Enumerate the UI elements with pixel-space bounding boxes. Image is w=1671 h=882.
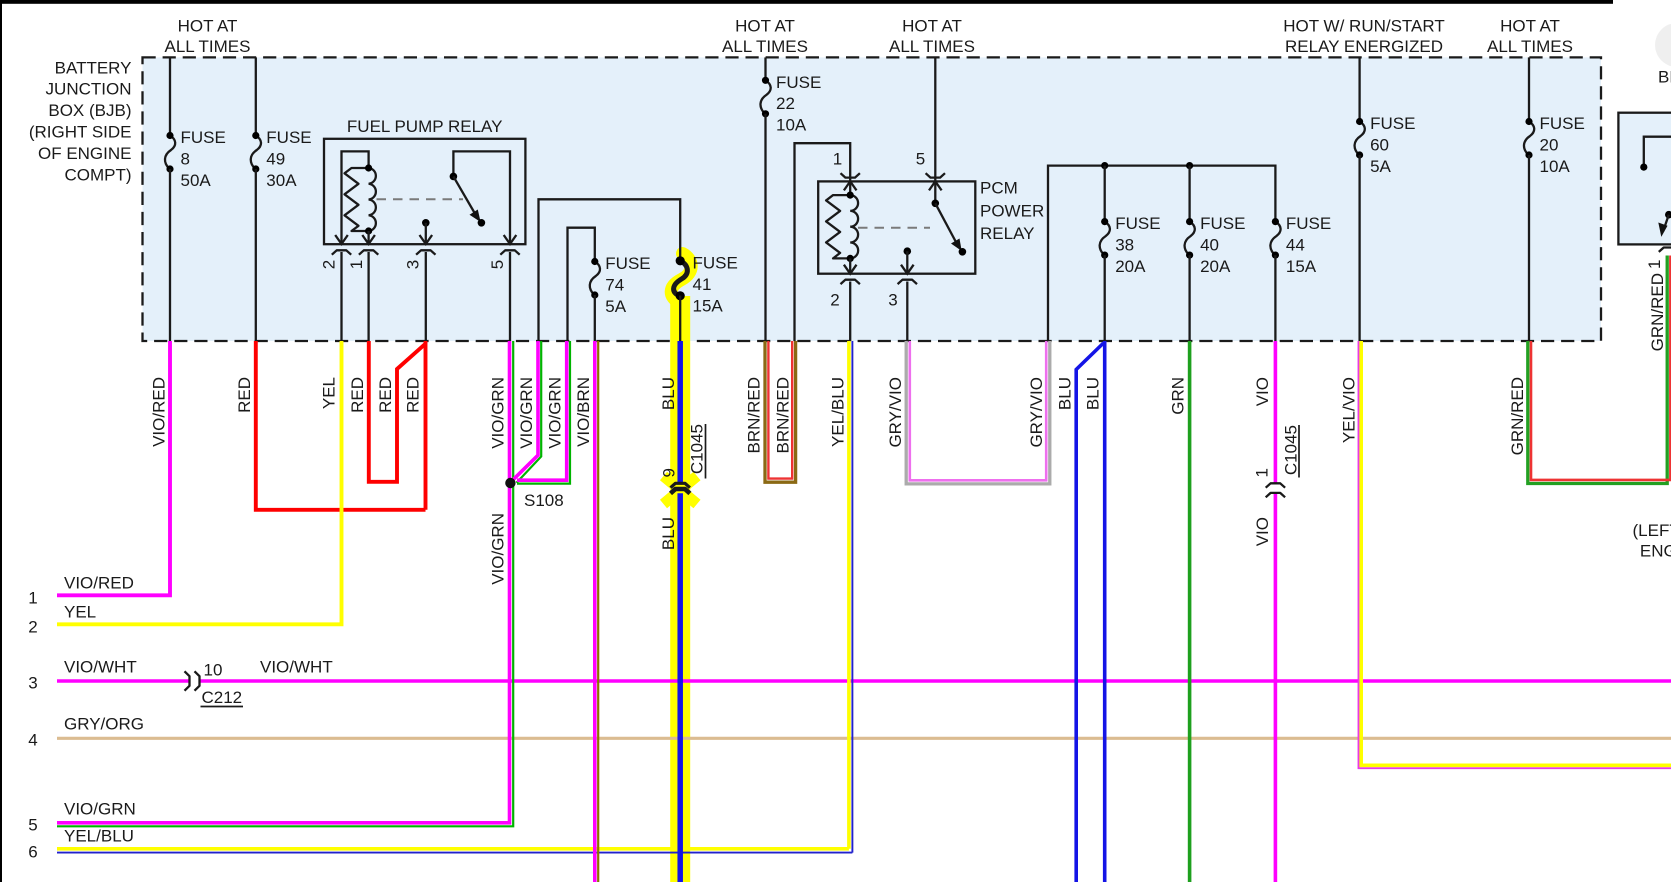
svg-text:BLU: BLU (659, 517, 678, 550)
label VIO/GRN (pin 5) (489, 377, 508, 449)
relay pin 2 arrow (844, 265, 857, 274)
frame left edge line (0, 0, 2, 882)
relay K-PCM-POWER pin 3 contact (904, 247, 912, 273)
svg-text:(LEFT: (LEFT (1633, 521, 1671, 540)
wire fuse 41 output (679, 296, 681, 342)
node junction fuse 40 feed (1186, 162, 1193, 222)
wire fuse 49 output (255, 169, 257, 341)
inline connector C212 pin 10 (185, 661, 244, 708)
partial relay switch contact (1658, 211, 1671, 237)
relay pin 5 arrow (504, 235, 517, 244)
svg-text:20A: 20A (1115, 257, 1146, 276)
wire fuse 8 feed (169, 57, 171, 135)
svg-text:FUSE: FUSE (181, 128, 226, 147)
svg-text:49: 49 (266, 149, 285, 168)
svg-text:BATTERY: BATTERY (55, 58, 132, 77)
svg-text:GRY/VIO: GRY/VIO (1027, 377, 1046, 448)
label VIO (below C1045) (1253, 517, 1272, 546)
battery junction box (BJB) dashed boundary (143, 57, 1602, 341)
row 3 wire label VIO/WHT (64, 658, 137, 677)
wire VIO (fuse 44 output) (1274, 341, 1278, 882)
svg-text:FUSE: FUSE (776, 73, 821, 92)
svg-text:GRN/RED: GRN/RED (1508, 377, 1527, 455)
label BATTERY JUNCTION BOX (29, 58, 132, 184)
svg-text:3: 3 (888, 291, 897, 310)
pin 3 connector (404, 250, 436, 269)
svg-text:HOT AT: HOT AT (735, 17, 795, 36)
wire PCM relay pin 5 feed (934, 57, 936, 181)
relay pin 2 arrow (335, 235, 348, 244)
fuse F44 15A (1270, 214, 1331, 276)
power source label HOT AT ALL TIMES (fuse 22) (722, 17, 808, 57)
svg-text:VIO/BRN: VIO/BRN (574, 377, 593, 447)
node S108 splice (505, 478, 564, 510)
svg-text:YEL/VIO: YEL/VIO (1340, 377, 1359, 443)
svg-text:15A: 15A (693, 296, 724, 315)
svg-text:RED: RED (376, 377, 395, 413)
wire fuse 41 feed from S108 riser (539, 199, 681, 341)
label GRY/VIO (right) (1027, 377, 1046, 448)
svg-text:50A: 50A (181, 171, 212, 190)
label BLU (above C1045) (659, 377, 678, 410)
power source label HOT AT ALL TIMES (fuse 20) (1487, 17, 1573, 57)
svg-text:44: 44 (1286, 236, 1305, 255)
svg-text:ENGIN: ENGIN (1640, 542, 1671, 561)
svg-text:10A: 10A (1540, 157, 1571, 176)
fuse F22 10A (760, 73, 821, 135)
svg-text:20A: 20A (1200, 257, 1231, 276)
wire relay coil feed (pin 2 to coil) (342, 151, 369, 244)
row 3 wire VIO/WHT (57, 679, 1671, 683)
label RED (loop) (376, 377, 395, 413)
wire fuse 22 feed (764, 57, 766, 80)
relay pin 3 arrow (901, 265, 914, 274)
label GRN/RED (fuse 20) (1508, 377, 1527, 455)
label GRN (1169, 377, 1188, 415)
row 3 wire label VIO/WHT (after C212) (260, 658, 333, 677)
inline connector C1045 pin 9 (660, 424, 707, 493)
svg-text:10A: 10A (776, 116, 807, 135)
label BLU (jogged) (1056, 377, 1075, 410)
partial relay pin 1 connector (1645, 248, 1671, 270)
pin 5 label (916, 150, 925, 169)
svg-text:(RIGHT SIDE: (RIGHT SIDE (29, 123, 132, 142)
svg-text:GRN/RED: GRN/RED (1648, 273, 1667, 351)
label GRY/VIO (left) (886, 377, 905, 448)
svg-text:FUSE: FUSE (1540, 114, 1585, 133)
svg-text:1: 1 (1645, 260, 1664, 269)
row 4 number (28, 731, 37, 750)
svg-text:5A: 5A (605, 297, 626, 316)
pin 1 connector (347, 250, 378, 269)
relay K-FUEL-PUMP coil (345, 164, 376, 234)
label VIO/RED (149, 377, 168, 447)
pin 2 connector (320, 250, 352, 269)
svg-text:5: 5 (916, 150, 925, 169)
svg-text:FUSE: FUSE (266, 128, 311, 147)
svg-text:1: 1 (28, 589, 37, 608)
wire PCM pin 2 to BJB edge (849, 282, 851, 342)
svg-text:41: 41 (693, 275, 712, 294)
relay pin 5 arrow (up) (929, 181, 942, 203)
row 5 wire label VIO/GRN (64, 800, 136, 819)
fuse F38 20A (1100, 214, 1161, 276)
label VIO (above C1045) (1253, 377, 1272, 406)
svg-text:PCM: PCM (980, 179, 1018, 198)
wire fuse 60 feed (1358, 57, 1360, 121)
row 4 wire GRY/ORG (57, 737, 1671, 740)
svg-text:FUSE: FUSE (605, 254, 650, 273)
fuse F8 50A (165, 128, 226, 190)
svg-text:FUEL PUMP RELAY: FUEL PUMP RELAY (347, 117, 503, 136)
svg-text:40: 40 (1200, 236, 1219, 255)
svg-text:RED: RED (404, 377, 423, 413)
label BLU (below C1045) (659, 517, 678, 550)
wire relay pin 3 to BJB edge (425, 252, 427, 341)
label BLU (straight) (1083, 377, 1102, 410)
svg-text:5: 5 (488, 260, 507, 269)
relay K-FUEL-PUMP box (324, 139, 525, 244)
relay K-FUEL-PUMP pin 3 contact (422, 219, 430, 244)
wire fuse 20 output (1528, 155, 1530, 341)
node junction fuse 38 feed (1101, 162, 1108, 222)
wire VIO/BRN (fuse 74 output) (595, 341, 598, 882)
svg-text:GRY/ORG: GRY/ORG (64, 715, 144, 734)
partial relay box (cut at right edge) (1618, 113, 1671, 245)
inline connector C1045 pin 1 (1253, 425, 1301, 497)
relay K-PCM-POWER switch (932, 200, 967, 256)
power source label HOT W/ RUN/START RELAY ENERGIZED (fuse 60) (1282, 17, 1446, 57)
label YEL (320, 377, 339, 409)
svg-text:3: 3 (28, 674, 37, 693)
svg-text:2: 2 (28, 618, 37, 637)
svg-text:VIO/GRN: VIO/GRN (517, 377, 536, 449)
wire VIO/RED (fuse 8 to row 1) (57, 341, 170, 595)
svg-text:FUSE: FUSE (1115, 214, 1160, 233)
svg-text:9: 9 (660, 468, 679, 477)
wire PCM pin 3 to BJB edge (906, 282, 908, 342)
svg-text:HOT W/ RUN/START: HOT W/ RUN/START (1283, 17, 1445, 36)
row 6 number (28, 843, 37, 862)
wire fuse 60 output (1358, 155, 1360, 341)
partial label LEFT ENGINE (right edge) (1633, 521, 1671, 561)
wire fuse bank feeder (1048, 166, 1275, 341)
svg-text:HOT AT: HOT AT (902, 17, 962, 36)
wire PCM relay pin 1 feed (795, 143, 851, 341)
label VIO/BRN (574, 377, 593, 447)
label BRN/RED (right) (773, 377, 792, 454)
svg-text:VIO/GRN: VIO/GRN (489, 513, 508, 585)
pin 1 connector (top) (841, 173, 860, 177)
wire BLU (fuse 38 output, jog) (1076, 343, 1103, 882)
svg-text:5: 5 (28, 816, 37, 835)
relay K-PCM-POWER mechanical link (858, 227, 930, 229)
svg-text:BLU: BLU (659, 377, 678, 410)
svg-text:BLU: BLU (1083, 377, 1102, 410)
relay pin 1 arrow (up) (844, 181, 857, 195)
pin 2 connector (830, 280, 860, 310)
svg-text:YEL/BLU: YEL/BLU (828, 377, 847, 447)
svg-text:VIO/GRN: VIO/GRN (64, 800, 136, 819)
svg-text:RED: RED (235, 377, 254, 413)
relay pin 1 arrow (362, 235, 375, 244)
label RED (pin 1) (348, 377, 367, 413)
svg-text:VIO/RED: VIO/RED (64, 574, 134, 593)
wire GRN/RED (fuse 20 loop to partial relay) (1528, 256, 1671, 484)
svg-text:8: 8 (181, 149, 190, 168)
wire YEL/VIO (fuse 60 output) (1359, 341, 1671, 768)
svg-text:C1045: C1045 (1282, 425, 1301, 475)
relay K-FUEL-PUMP switch (450, 173, 486, 227)
svg-text:YEL: YEL (64, 603, 96, 622)
svg-text:COMPT): COMPT) (64, 165, 131, 184)
wire fuse 38 output (1104, 255, 1106, 341)
watermark circle (top right) (1655, 23, 1671, 67)
svg-text:20: 20 (1540, 135, 1559, 154)
wire fuse 74 output (594, 295, 596, 341)
svg-text:C1045: C1045 (688, 424, 707, 474)
svg-text:22: 22 (776, 94, 795, 113)
label VIO/GRN (riser C) (545, 377, 564, 449)
wire YEL/BLU (PCM pin 2 to row 6) (849, 341, 853, 853)
partial component label B (top right) (1658, 68, 1671, 87)
fuse F60 5A (1355, 114, 1416, 176)
svg-text:HOT AT: HOT AT (1500, 17, 1560, 36)
svg-text:FUSE: FUSE (1200, 214, 1245, 233)
svg-text:60: 60 (1370, 135, 1389, 154)
wire fuse 8 output (169, 169, 171, 341)
row 5 number (28, 816, 37, 835)
wire RED (relay pin 1 loop) (369, 341, 426, 482)
svg-text:GRY/VIO: GRY/VIO (886, 377, 905, 448)
row 4 wire label GRY/ORG (64, 715, 144, 734)
wire RED (relay pin 3) (424, 341, 428, 510)
wire relay pin 5 to BJB edge (509, 252, 511, 341)
wire relay switch feed (pin 5 to pivot) (453, 151, 510, 244)
svg-text:ALL TIMES: ALL TIMES (165, 37, 251, 56)
svg-text:2: 2 (320, 260, 339, 269)
wire fuse 74 feed from S108 riser (568, 228, 595, 341)
wire relay pin 1 to BJB edge (367, 252, 369, 341)
wire GRN (fuse 40 output) (1188, 341, 1192, 882)
wire fuse 22 output (764, 114, 766, 341)
svg-text:3: 3 (404, 260, 423, 269)
svg-text:FUSE: FUSE (1370, 114, 1415, 133)
svg-text:ALL TIMES: ALL TIMES (889, 37, 975, 56)
svg-text:YEL/BLU: YEL/BLU (64, 827, 134, 846)
svg-text:1: 1 (347, 260, 366, 269)
fuse F20 10A (1524, 114, 1585, 176)
wire VIO/GRN (S108 riser to fuse 41) (512, 341, 541, 483)
fuse F40 20A (1185, 214, 1246, 276)
svg-text:38: 38 (1115, 236, 1134, 255)
svg-text:BL: BL (1658, 68, 1671, 87)
row 2 number (28, 618, 37, 637)
wire VIO/GRN (S108 riser to fuse 74) (517, 341, 570, 484)
svg-text:4: 4 (28, 731, 37, 750)
svg-text:VIO/GRN: VIO/GRN (489, 377, 508, 449)
wire GRY/VIO (PCM pin 3 loop to fuse bank) (906, 341, 1050, 484)
wire YEL (relay pin 2 to row 2) (57, 341, 342, 624)
relay K-FUEL-PUMP mechanical link (377, 198, 464, 200)
label BRN/RED (left) (745, 377, 764, 454)
wire fuse 40 output (1188, 255, 1190, 341)
svg-text:C212: C212 (202, 688, 243, 707)
svg-text:RELAY ENERGIZED: RELAY ENERGIZED (1285, 37, 1443, 56)
frame top bar (0, 0, 1613, 4)
power source label HOT AT ALL TIMES (PCM relay) (889, 17, 975, 57)
svg-text:74: 74 (605, 275, 624, 294)
svg-text:S108: S108 (524, 491, 564, 510)
wire fuse 49 feed (255, 57, 257, 135)
power source label HOT AT ALL TIMES (fuse 8/49) (165, 17, 251, 57)
wire VIO/GRN (relay pin 5 to S108 to row 5) (57, 341, 513, 826)
svg-text:OF ENGINE: OF ENGINE (38, 144, 132, 163)
wire relay coil to pin 1 (367, 231, 369, 244)
label VIO/GRN (below S108) (489, 513, 508, 585)
row 1 number (28, 589, 37, 608)
svg-text:VIO/RED: VIO/RED (149, 377, 168, 447)
relay K-PCM-POWER title (980, 179, 1044, 244)
row 6 wire YEL/BLU (57, 849, 852, 853)
relay pin 3 arrow (420, 235, 433, 244)
label YEL/BLU (vertical) (828, 377, 847, 447)
svg-text:RED: RED (348, 377, 367, 413)
svg-text:6: 6 (28, 843, 37, 862)
svg-text:VIO: VIO (1253, 377, 1272, 406)
row 1 wire label VIO/RED (64, 574, 134, 593)
highlighter mark on traced BLU circuit (664, 254, 698, 882)
label RED (fuse 49) (235, 377, 254, 413)
wire fuse 20 feed (1528, 57, 1530, 121)
label YEL/VIO (1340, 377, 1359, 443)
svg-text:VIO/WHT: VIO/WHT (260, 658, 333, 677)
svg-text:10: 10 (204, 661, 223, 680)
svg-text:VIO/WHT: VIO/WHT (64, 658, 137, 677)
pin 3 connector (888, 280, 917, 310)
svg-text:BRN/RED: BRN/RED (745, 377, 764, 454)
relay K-FUEL-PUMP title (347, 117, 503, 136)
wire BLU traced circuit (fuse 41 output) (677, 341, 683, 882)
partial relay internal wire (1640, 137, 1671, 171)
wire RED (fuse 49 output) (256, 341, 426, 510)
label GRN/RED (partial relay) (1648, 273, 1667, 351)
wire relay coil to pin 2 (849, 258, 851, 273)
pin 5 connector (top) (926, 173, 945, 177)
pin 1 label (833, 150, 842, 169)
svg-text:2: 2 (830, 291, 839, 310)
fuse F41 15A (674, 254, 738, 316)
wire relay pin 2 to BJB edge (340, 252, 342, 341)
fuse F74 5A (590, 254, 651, 316)
svg-text:ALL TIMES: ALL TIMES (722, 37, 808, 56)
svg-text:BLU: BLU (1056, 377, 1075, 410)
svg-text:JUNCTION: JUNCTION (46, 80, 132, 99)
svg-text:ALL TIMES: ALL TIMES (1487, 37, 1573, 56)
relay K-PCM-POWER box (818, 181, 975, 273)
svg-text:BOX (BJB): BOX (BJB) (48, 101, 131, 120)
svg-text:GRN: GRN (1169, 377, 1188, 415)
wire BLU (fuse 38 output) (1103, 341, 1107, 882)
fuse F49 30A (251, 128, 312, 190)
svg-text:FUSE: FUSE (693, 254, 738, 273)
relay K-PCM-POWER coil (826, 192, 858, 263)
svg-text:RELAY: RELAY (980, 224, 1035, 243)
pin 5 connector (488, 250, 520, 269)
svg-text:YEL: YEL (320, 377, 339, 409)
row 6 wire label YEL/BLU (64, 827, 134, 846)
svg-text:VIO: VIO (1253, 517, 1272, 546)
wire fuse 44 output (1274, 255, 1276, 341)
row 3 number (28, 674, 37, 693)
label RED (pin 3) (404, 377, 423, 413)
svg-text:FUSE: FUSE (1286, 214, 1331, 233)
svg-text:VIO/GRN: VIO/GRN (545, 377, 564, 449)
svg-text:1: 1 (833, 150, 842, 169)
svg-text:30A: 30A (266, 171, 297, 190)
row 2 wire label YEL (64, 603, 96, 622)
wire BRN/RED (fuse 22 loop) (765, 341, 796, 482)
svg-text:BRN/RED: BRN/RED (773, 377, 792, 454)
svg-text:1: 1 (1253, 468, 1272, 477)
svg-text:5A: 5A (1370, 157, 1391, 176)
label VIO/GRN (riser B) (517, 377, 536, 449)
svg-text:POWER: POWER (980, 202, 1044, 221)
svg-text:HOT AT: HOT AT (178, 17, 238, 36)
svg-text:15A: 15A (1286, 257, 1317, 276)
